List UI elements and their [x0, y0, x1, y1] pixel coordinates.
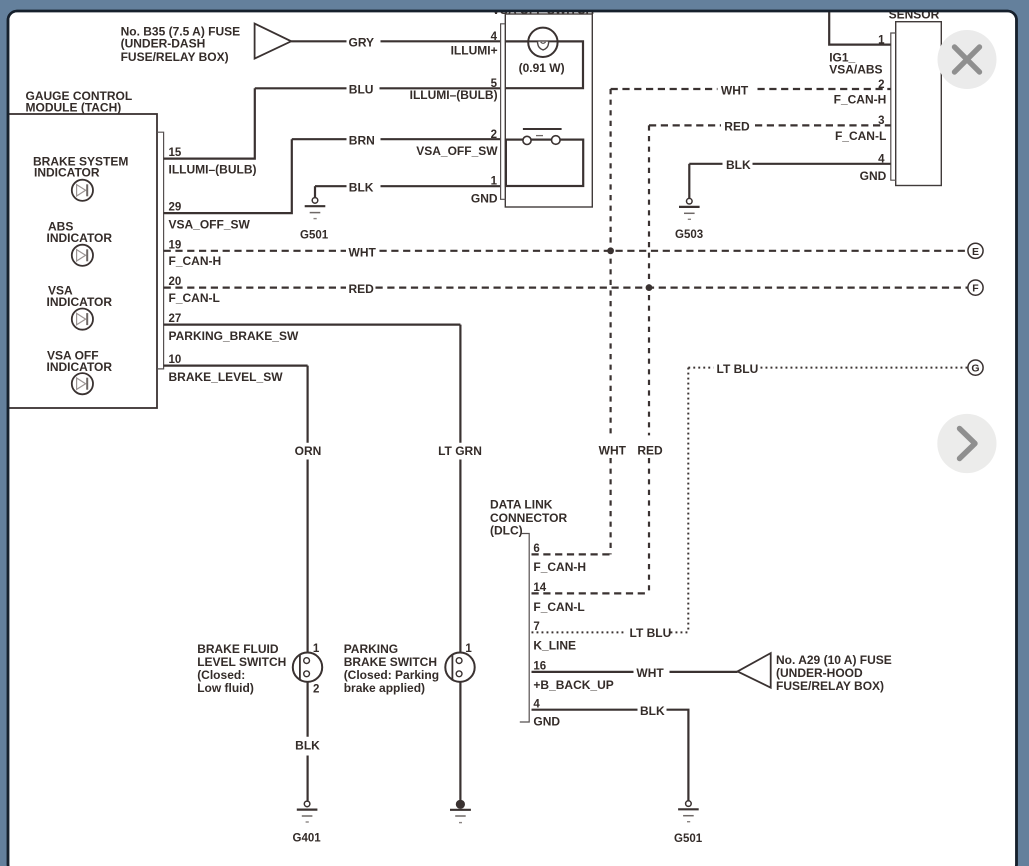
svg-text:INDICATOR: INDICATOR: [34, 166, 100, 180]
wire LT BLU dotted to connector G: [688, 367, 968, 369]
svg-text:(UNDER-HOOD: (UNDER-HOOD: [776, 666, 863, 680]
svg-text:15: 15: [169, 147, 182, 159]
svg-text:1: 1: [465, 643, 472, 655]
svg-text:F_CAN-L: F_CAN-L: [835, 129, 886, 143]
wire BRN (module to switch pin 2): [292, 138, 501, 140]
svg-text:LT BLU: LT BLU: [717, 362, 759, 376]
svg-text:ILLUMI–(BULB): ILLUMI–(BULB): [410, 88, 498, 102]
sensor box: [896, 22, 942, 186]
svg-text:(Closed:: (Closed:: [197, 668, 245, 682]
svg-text:K_LINE: K_LINE: [533, 639, 576, 653]
svg-text:2: 2: [878, 79, 884, 91]
svg-text:+B_BACK_UP: +B_BACK_UP: [533, 678, 613, 692]
VSA OFF indicator lamp: [72, 373, 93, 394]
svg-text:RED: RED: [637, 443, 663, 457]
switch contact box: [506, 140, 583, 186]
svg-text:20: 20: [169, 276, 182, 288]
parking brake switch: [445, 653, 474, 682]
svg-text:BLK: BLK: [726, 158, 751, 172]
wire pin27 PARKING_BRAKE_SW: [164, 324, 461, 326]
svg-text:F_CAN-L: F_CAN-L: [533, 600, 584, 614]
VSA OFF switch outer box: [505, 14, 592, 207]
svg-text:BRAKE FLUID: BRAKE FLUID: [197, 642, 279, 656]
wire pin7 K_LINE dotted LT BLU: [532, 631, 689, 633]
svg-text:GND: GND: [860, 169, 887, 183]
wire pin10 BRAKE_LEVEL_SW: [164, 365, 308, 367]
svg-text:PARKING: PARKING: [344, 642, 398, 656]
svg-text:INDICATOR: INDICATOR: [47, 231, 113, 245]
ground stub G501 upper: [314, 186, 316, 197]
ground G503: [675, 198, 703, 241]
svg-text:ORN: ORN: [295, 444, 322, 458]
wire WHT dashed (to sensor pin 2): [611, 88, 891, 90]
svg-text:27: 27: [169, 313, 182, 325]
wire pin4 GND BLK: [532, 710, 689, 801]
VSA indicator lamp: [72, 309, 93, 330]
ground G501 lower: [674, 801, 703, 845]
ABS indicator lamp: [72, 245, 93, 266]
svg-text:10: 10: [169, 354, 182, 366]
svg-text:MODULE (TACH): MODULE (TACH): [26, 100, 122, 114]
svg-text:(0.91 W): (0.91 W): [519, 61, 565, 75]
svg-text:Low fluid): Low fluid): [197, 681, 254, 695]
brake fluid level switch: [293, 653, 322, 682]
svg-text:DATA LINK: DATA LINK: [490, 498, 553, 512]
wire pin29 VSA_OFF_SW: [164, 139, 292, 213]
svg-text:G401: G401: [293, 832, 322, 844]
svg-text:(Closed: Parking: (Closed: Parking: [344, 668, 439, 682]
svg-text:VSA/ABS: VSA/ABS: [829, 63, 882, 77]
svg-text:F_CAN-L: F_CAN-L: [169, 291, 220, 305]
wire BLK (G503 to sensor pin 4): [689, 163, 891, 165]
svg-text:F_CAN-H: F_CAN-H: [834, 93, 887, 107]
svg-text:VSA_OFF_SW: VSA_OFF_SW: [416, 144, 498, 158]
svg-text:BLK: BLK: [295, 739, 320, 753]
svg-text:4: 4: [491, 31, 498, 43]
svg-text:3: 3: [878, 115, 884, 127]
svg-text:4: 4: [878, 153, 885, 165]
svg-text:1: 1: [878, 34, 885, 46]
switch actuator dash: [536, 135, 543, 137]
svg-text:GRY: GRY: [349, 36, 375, 50]
svg-text:F_CAN-H: F_CAN-H: [533, 560, 586, 574]
svg-text:RED: RED: [724, 120, 750, 134]
svg-text:1: 1: [491, 175, 498, 187]
svg-text:G501: G501: [300, 229, 329, 241]
svg-text:2: 2: [313, 683, 319, 695]
svg-text:E: E: [972, 246, 979, 258]
svg-text:BRAKE_LEVEL_SW: BRAKE_LEVEL_SW: [169, 370, 284, 384]
vertical wire RED dashed (sensor/DLC): [648, 125, 650, 593]
svg-text:No. A29 (10 A) FUSE: No. A29 (10 A) FUSE: [776, 653, 892, 667]
svg-text:FUSE/RELAY BOX): FUSE/RELAY BOX): [121, 50, 229, 64]
svg-text:LT GRN: LT GRN: [438, 444, 482, 458]
vertical wire WHT dashed (sensor/DLC): [609, 89, 611, 554]
connector G: [968, 360, 983, 375]
wire pin20 F_CAN-L dashed RED to connector F: [164, 287, 968, 289]
junction dot WHT/19: [607, 247, 614, 254]
svg-text:WHT: WHT: [636, 666, 664, 680]
wire pin15 ILLUMI-(BULB): [164, 88, 255, 158]
svg-text:G501: G501: [674, 833, 703, 845]
svg-text:BLK: BLK: [640, 704, 665, 718]
svg-text:ILLUMI–(BULB): ILLUMI–(BULB): [169, 163, 257, 177]
svg-text:29: 29: [169, 202, 182, 214]
vertical wire ORN (pin10 to fluid switch): [307, 366, 309, 653]
wire GRY (fuse B35 to switch pin 4): [291, 40, 500, 42]
svg-text:BLK: BLK: [349, 181, 374, 195]
sensor connector bracket: [891, 33, 896, 180]
wire IG1 from top: [829, 10, 891, 45]
svg-text:INDICATOR: INDICATOR: [47, 295, 113, 309]
svg-text:BLU: BLU: [349, 83, 374, 97]
svg-text:PARKING_BRAKE_SW: PARKING_BRAKE_SW: [169, 329, 299, 343]
wire BLK (fluid switch to G401): [307, 682, 309, 801]
svg-text:ILLUMI+: ILLUMI+: [451, 43, 498, 57]
vertical wire LT GRN (pin27 to parking switch): [459, 325, 461, 653]
ground G401: [293, 801, 322, 844]
svg-text:WHT: WHT: [721, 83, 749, 97]
wire pin16 +B_BACK_UP WHT to fuse A29: [532, 671, 738, 673]
bulb (0.91 W): [528, 28, 557, 57]
connector F: [968, 280, 983, 295]
svg-text:WHT: WHT: [349, 245, 377, 259]
ground G501 upper: [300, 198, 329, 242]
wire BLU (module to switch pin 5): [255, 87, 501, 89]
svg-text:FUSE/RELAY BOX): FUSE/RELAY BOX): [776, 679, 884, 693]
svg-text:G503: G503: [675, 229, 703, 241]
svg-text:LEVEL SWITCH: LEVEL SWITCH: [197, 655, 286, 669]
connector E: [968, 243, 983, 258]
switch contact right: [552, 136, 561, 145]
wire RED dashed (to sensor pin 3): [649, 124, 891, 126]
close button: [938, 30, 997, 89]
svg-text:VSA_OFF_SW: VSA_OFF_SW: [169, 218, 251, 232]
svg-text:G: G: [971, 363, 979, 375]
svg-text:1: 1: [313, 643, 320, 655]
svg-text:GND: GND: [533, 715, 560, 729]
switch blade bar: [523, 128, 562, 130]
next button: [937, 414, 996, 473]
svg-text:19: 19: [169, 239, 182, 251]
svg-text:2: 2: [491, 129, 497, 141]
wire (parking switch to ground): [459, 682, 461, 801]
svg-text:brake applied): brake applied): [344, 681, 425, 695]
gauge control module box: [9, 114, 158, 408]
wire pin6 F_CAN-H dashed: [532, 553, 611, 555]
svg-text:LT BLU: LT BLU: [630, 626, 672, 640]
brake system indicator lamp: [72, 180, 93, 201]
VSA OFF switch connector bracket: [501, 24, 506, 200]
wire pin19 F_CAN-H dashed WHT to connector E: [164, 250, 968, 252]
svg-text:(DLC): (DLC): [490, 524, 523, 538]
ground parking brake (case ground): [450, 800, 471, 823]
switch contact left: [523, 136, 531, 144]
module connector bracket: [157, 132, 164, 369]
bulb housing box: [505, 41, 583, 88]
svg-text:F: F: [972, 283, 979, 295]
ground stub G503: [688, 164, 690, 198]
DLC bracket: [520, 534, 529, 723]
svg-text:(UNDER-DASH: (UNDER-DASH: [121, 36, 206, 50]
svg-text:INDICATOR: INDICATOR: [47, 360, 113, 374]
svg-text:WHT: WHT: [599, 443, 627, 457]
svg-text:BRN: BRN: [349, 134, 375, 148]
wire pin14 F_CAN-L dashed: [532, 592, 650, 594]
svg-text:BRAKE SWITCH: BRAKE SWITCH: [344, 655, 437, 669]
fuse A29 triangle: [738, 653, 771, 688]
fuse B35 triangle: [255, 24, 292, 59]
junction dot RED/20: [646, 284, 653, 291]
svg-text:F_CAN-H: F_CAN-H: [169, 254, 222, 268]
svg-text:GND: GND: [471, 192, 498, 206]
wire BLK (G501 to switch pin 1): [315, 185, 501, 187]
vertical wire LT BLU dotted (DLC K_LINE): [687, 368, 689, 633]
svg-text:RED: RED: [349, 282, 375, 296]
